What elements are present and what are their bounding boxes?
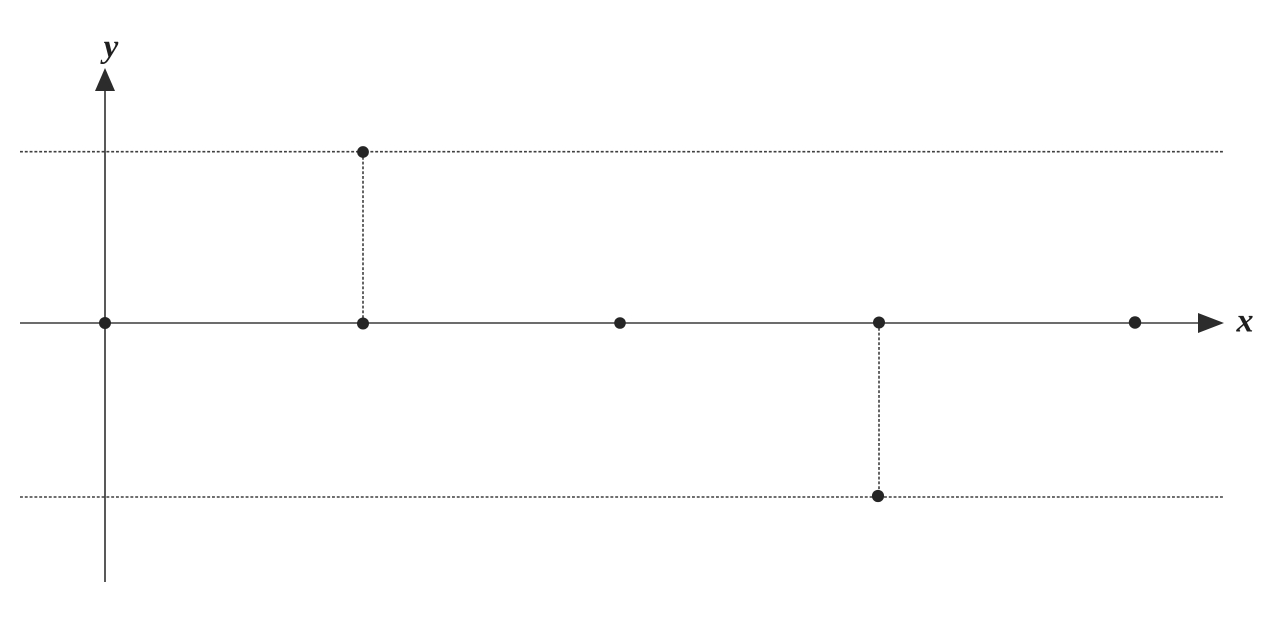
top dashed horizontal line y=1 [20, 151, 1223, 153]
dot on bottom dashed line at (3,-1) [872, 490, 884, 502]
y-axis line [104, 86, 106, 582]
dot on x-axis at x=2 [614, 317, 626, 329]
dot at origin [99, 317, 111, 329]
dot on x-axis at x=4 [1129, 316, 1141, 328]
y-axis arrowhead [95, 68, 115, 91]
bottom dashed horizontal line y=-1 [20, 496, 1223, 498]
dot on x-axis at x=1 [357, 318, 369, 330]
svg-text:x: x [1236, 303, 1254, 340]
dot on x-axis at x=3 [873, 317, 885, 329]
vertical dashed segment at x=1 [362, 152, 364, 322]
vertical dashed segment at x=3 [878, 323, 880, 496]
x-axis line [20, 322, 1200, 324]
dot on top dashed line at (1,1) [357, 146, 369, 158]
x-axis arrowhead [1198, 313, 1224, 333]
